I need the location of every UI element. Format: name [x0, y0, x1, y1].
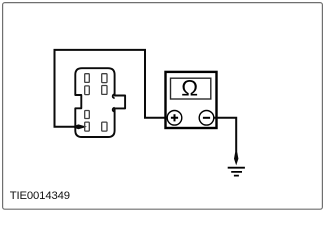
connector C1 body — [75, 68, 125, 137]
pin cavity row1 left — [85, 74, 90, 83]
pin cavity row2 left — [85, 86, 90, 95]
connector tab top ear — [113, 94, 115, 98]
minus terminal — [199, 111, 214, 126]
pin cavity row1 right — [102, 74, 107, 83]
pin cavity row3 left — [85, 111, 90, 119]
pin cavity row4 left (probed pin) — [85, 122, 90, 131]
ohmmeter body — [166, 72, 217, 128]
wire: ohmmeter + lead loop to connector pin — [55, 50, 168, 127]
pin cavity row4 right — [102, 122, 107, 131]
ground arrowhead — [234, 153, 238, 166]
ground symbol — [228, 168, 245, 176]
svg-text:Ω: Ω — [181, 76, 198, 101]
probe arrowhead at pin — [74, 124, 87, 129]
connector tab bottom ear — [113, 108, 115, 112]
ohmmeter display — [171, 78, 211, 99]
wire: ohmmeter - lead to ground — [214, 118, 236, 154]
plus terminal — [167, 111, 182, 126]
svg-text:TIE0014349: TIE0014349 — [10, 190, 70, 202]
pin cavity row2 right — [102, 86, 107, 95]
